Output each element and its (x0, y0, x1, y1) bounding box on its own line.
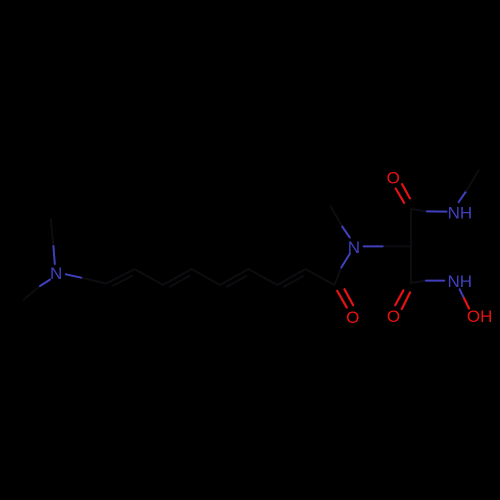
chain bond C1=C2 (106, 269, 134, 284)
bond Ccentral-Cbot (410, 246, 412, 283)
bond N1-CH3 up (dark half) (51, 220, 54, 247)
svg-text:O: O (346, 308, 359, 327)
bond Ccentral-Ctop (410, 209, 412, 246)
bond Ctop=O top carbonyl red line left (396, 189, 404, 203)
bond N1-CH3 down-left (blue half at N) (40, 280, 50, 286)
bond Cbot=O bottom carbonyl red line left (395, 290, 403, 305)
svg-text:O: O (387, 169, 400, 188)
chain bond C7=C8 (277, 269, 306, 285)
bond Ctop-NH top amide (blue half) (427, 210, 447, 212)
bond Cbot=O bottom carbonyl red line right (402, 293, 410, 310)
bond N2-CH3 up-left (blue half at N2) (342, 227, 350, 238)
chain bond C6-C7 (249, 269, 278, 285)
svg-text:O: O (387, 307, 400, 326)
bond NHbot-OH N-O (red half at O) (464, 298, 469, 308)
bond NHtop-CH3 (blue half at N) (459, 191, 467, 202)
bond N1-C1 (blue half at N) (66, 274, 81, 277)
bond C9=O chain carbonyl second red line (344, 289, 353, 305)
chain bond C3=C4 (163, 269, 192, 285)
bond C9-N2 amide (dark half at C) (334, 268, 341, 286)
bond N1-CH3 up (blue half at N) (53, 246, 54, 264)
chain bond C7=C8 second line (284, 276, 303, 287)
chain bond C1=C2 second line (113, 276, 132, 286)
bond NHbot-OH N-O (blue half at N) (460, 289, 464, 298)
chain bond C4-C5 (192, 269, 221, 285)
bond N1-C1 (dark half) (81, 278, 106, 284)
chain bond C3=C4 second line (170, 276, 189, 287)
svg-text:N: N (348, 238, 360, 257)
bond C9=O chain carbonyl main red line (337, 291, 347, 308)
bond Ctop-NH top amide (dark half) (411, 209, 427, 211)
bond N2-CH3 up-left (dark half) (331, 206, 343, 226)
bond NHtop-CH3 (dark half) (466, 171, 478, 192)
chain bond C8-C9 carbonyl (306, 269, 335, 285)
bond Cbot-NH bottom (dark half) (411, 281, 426, 283)
bond C9-N2 amide (blue half at N2) (341, 254, 350, 268)
svg-text:N: N (50, 264, 62, 283)
svg-text:OH: OH (467, 307, 493, 326)
chain bond C2-C3 (135, 269, 164, 285)
bond Cbot-NH bottom (blue half) (426, 280, 444, 282)
bond N2-Ccentral (dark half) (383, 245, 411, 247)
bond N2-Ccentral (blue half at N2) (364, 245, 383, 247)
svg-text:NH: NH (448, 272, 473, 291)
chain bond C5=C6 second line (227, 276, 246, 287)
bond Ctop=O top carbonyl red line right (402, 184, 410, 198)
svg-text:NH: NH (448, 203, 473, 222)
chain bond C5=C6 (220, 269, 249, 285)
bond N1-CH3 down-left (dark half) (24, 286, 40, 299)
